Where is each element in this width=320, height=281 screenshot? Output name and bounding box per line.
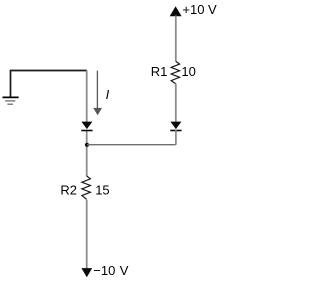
svg-text:+10 V: +10 V [182,2,217,17]
svg-text:R1: R1 [151,64,168,79]
svg-text:−10: −10 [93,263,115,278]
svg-text:R2: R2 [60,182,77,197]
svg-text:15: 15 [95,182,109,197]
svg-text:V: V [120,263,129,278]
svg-text:I: I [106,87,110,102]
svg-text:10: 10 [181,64,195,79]
